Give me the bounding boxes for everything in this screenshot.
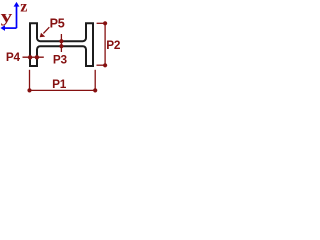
svg-text:P3: P3: [53, 52, 68, 66]
svg-text:P4: P4: [6, 50, 21, 64]
dimension P3 dot top: [59, 39, 63, 43]
dimension P2 dot top: [103, 21, 107, 25]
dimension P1 extension right: [94, 70, 96, 91]
dimension P2 stub top: [97, 22, 106, 24]
dimension P3 line: [60, 34, 62, 52]
svg-text:y: y: [1, 8, 13, 26]
dimension P1 dot right: [93, 88, 97, 92]
dimension P1 extension left: [29, 70, 31, 91]
dimension P2 line: [104, 23, 106, 65]
dimension P5 leader: [43, 27, 49, 33]
svg-text:P1: P1: [52, 77, 67, 91]
svg-text:z: z: [20, 0, 27, 15]
dimension P2 dot bottom: [103, 63, 107, 67]
dimension P3 dot bottom: [59, 44, 63, 48]
dimension P4 dot left: [28, 55, 32, 59]
svg-text:P2: P2: [106, 38, 121, 52]
dimension P1 line: [30, 89, 96, 91]
dimension P1 dot left: [27, 88, 31, 92]
dimension P5 arrowhead: [40, 33, 46, 37]
dimension P4 dot right: [35, 55, 39, 59]
dimension P2 stub bottom: [97, 64, 106, 66]
axis z arrow: [16, 6, 18, 28]
beam I-section outline: [30, 23, 93, 66]
svg-text:P5: P5: [50, 16, 65, 30]
dimension P4 line: [23, 56, 44, 58]
axis y arrow: [5, 27, 17, 29]
